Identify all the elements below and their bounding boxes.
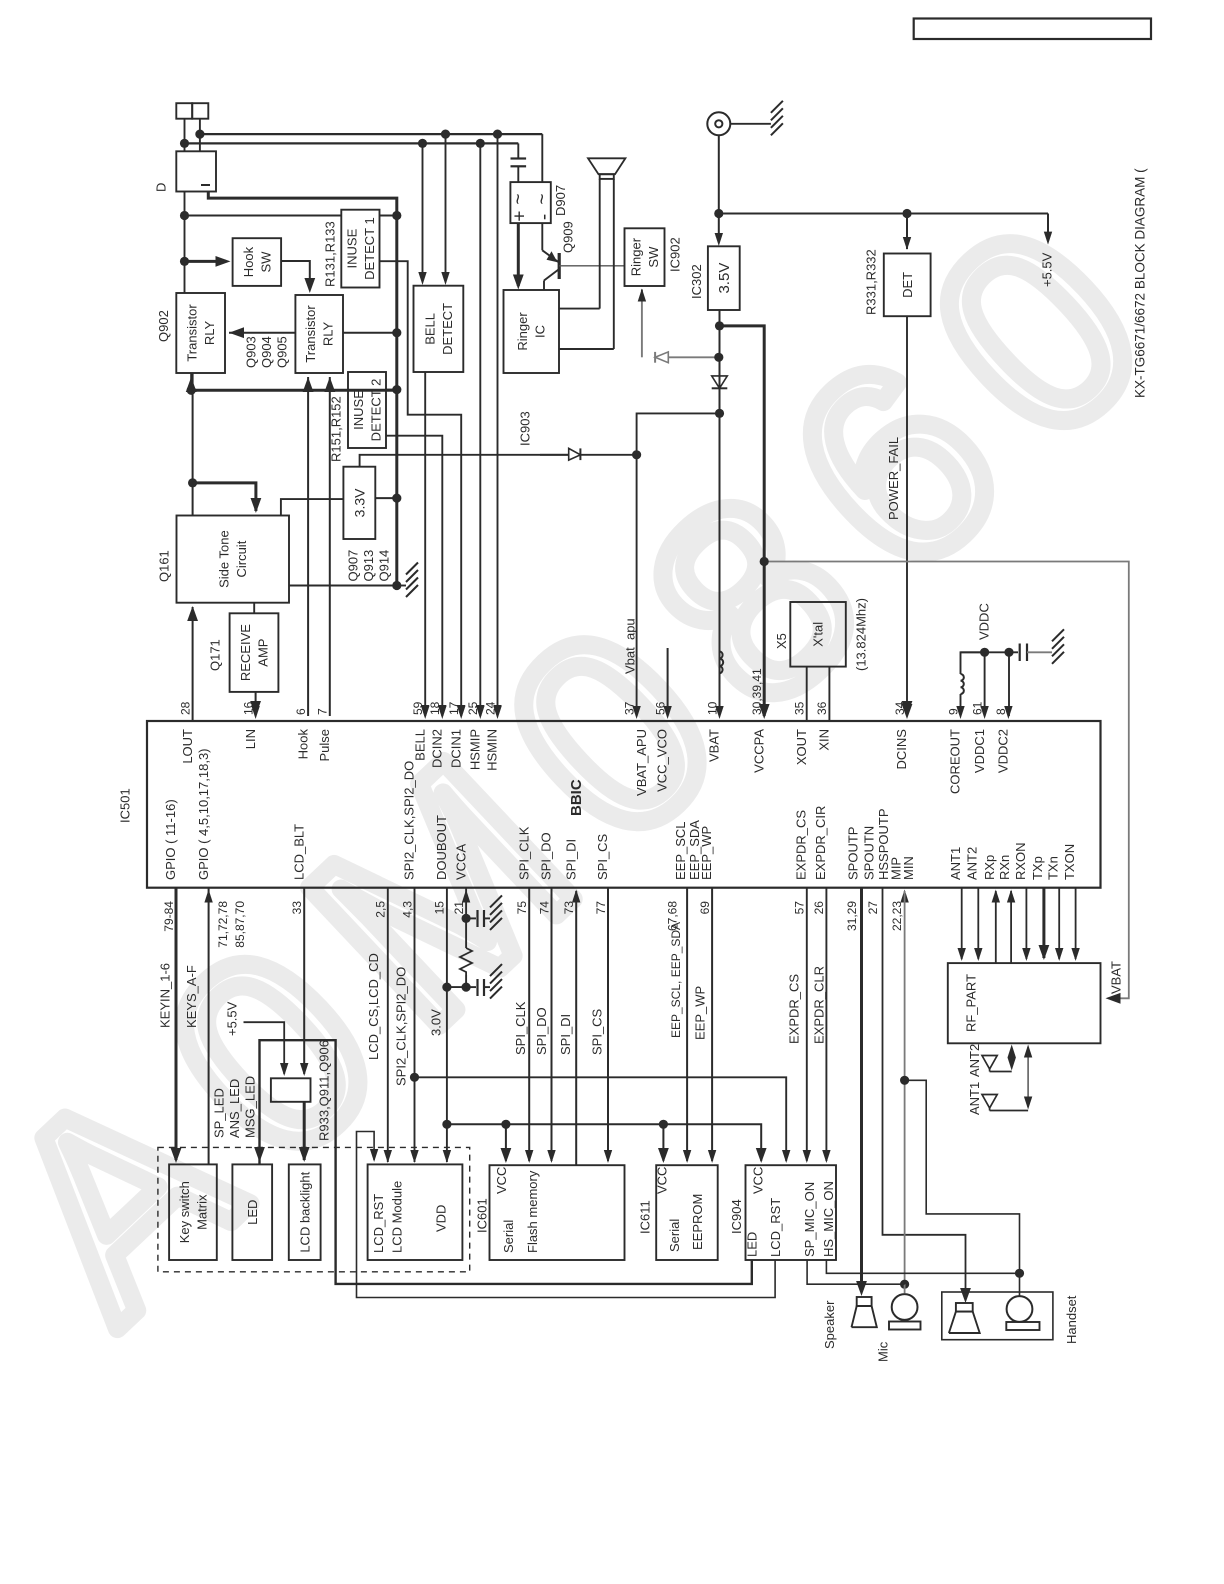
wire ANT1 xyxy=(961,888,963,959)
expander IC904 xyxy=(746,1165,837,1260)
svg-text:IC902: IC902 xyxy=(668,237,683,272)
wire backlight drive xyxy=(303,1102,306,1160)
wire SPOUTN to handset speaker xyxy=(883,888,966,1299)
svg-text:KX-TG6671/6672 BLOCK DIAGRAM (: KX-TG6671/6672 BLOCK DIAGRAM ( xyxy=(1132,168,1147,398)
wire EEP_SCL/SDA xyxy=(686,888,688,1161)
svg-text:4,3: 4,3 xyxy=(400,901,414,918)
svg-text:28: 28 xyxy=(178,701,192,715)
svg-text:EXPDR_CLR: EXPDR_CLR xyxy=(811,966,826,1044)
node hook branch xyxy=(180,257,189,266)
wire BELL input from line xyxy=(422,143,424,281)
svg-text:Serial: Serial xyxy=(501,1220,516,1253)
wire ringer sw enable w/ diode xyxy=(641,298,643,358)
svg-text:69: 69 xyxy=(698,901,712,915)
wire HSMIN from line xyxy=(497,134,499,716)
transistor Q2 (Q909) xyxy=(541,223,543,250)
svg-text:TXn: TXn xyxy=(1046,856,1061,880)
wire SPI_DO xyxy=(551,888,553,1161)
node VCCA cap2 xyxy=(462,983,471,992)
svg-text:EXPDR_CIR: EXPDR_CIR xyxy=(813,806,828,880)
wire INUSE1 to DCIN1 xyxy=(380,261,462,716)
svg-text:VCC: VCC xyxy=(494,1167,509,1194)
node INUSE2/Dline xyxy=(392,385,401,394)
svg-text:EEP_SCL: EEP_SCL xyxy=(673,821,688,880)
svg-text:R331,R332: R331,R332 xyxy=(864,249,879,315)
capacitor on lower bus xyxy=(517,143,519,158)
node mic/handset xyxy=(900,1076,909,1085)
svg-text:SW: SW xyxy=(258,251,273,273)
Hook SW block xyxy=(233,238,282,286)
wire HSMIP from line xyxy=(479,143,481,716)
svg-text:DCIN1: DCIN1 xyxy=(448,729,463,768)
svg-text:MSG_LED: MSG_LED xyxy=(242,1076,257,1138)
wire RLY1 to side tone xyxy=(192,373,194,516)
svg-text:VBAT: VBAT xyxy=(1109,961,1124,994)
title block box (empty) xyxy=(914,19,1151,40)
LED block xyxy=(232,1164,272,1260)
svg-text:VCCA: VCCA xyxy=(453,844,468,880)
node ground of D return xyxy=(392,581,401,590)
wire conn right pin xyxy=(199,119,201,152)
wire EXPDR_CLR xyxy=(825,888,827,1161)
capacitor C (VDDC) xyxy=(1009,651,1018,653)
microphone MIC1 xyxy=(892,1294,918,1320)
wire HS_MIC_ON xyxy=(826,1260,1019,1273)
wire conn left pin xyxy=(184,119,186,152)
wire side tone to 3.3V xyxy=(281,499,344,515)
svg-text:TXp: TXp xyxy=(1030,856,1045,880)
wire VDDC1 xyxy=(984,652,986,716)
wire SPI2 to IC904 xyxy=(415,1077,787,1161)
LCD backlight block xyxy=(289,1164,321,1260)
Key switch Matrix block xyxy=(169,1164,217,1260)
wire VCCA xyxy=(465,888,467,948)
svg-text:22,23: 22,23 xyxy=(890,901,904,931)
svg-text:LED: LED xyxy=(745,1232,760,1257)
wire pulse pin to RLY2 xyxy=(329,377,331,716)
svg-text:SW: SW xyxy=(646,246,661,268)
wire RLY2 to RLY1 xyxy=(229,332,295,334)
svg-text:D: D xyxy=(154,183,169,192)
svg-text:VCC: VCC xyxy=(751,1167,766,1194)
svg-text:73: 73 xyxy=(562,901,576,915)
svg-text:RLY: RLY xyxy=(321,322,336,347)
svg-text:Q161: Q161 xyxy=(156,550,171,582)
wire TXp (thick) xyxy=(1042,888,1045,958)
svg-text:RF_PART: RF_PART xyxy=(964,974,979,1032)
capacitor C (VCCA hi) xyxy=(476,910,478,927)
wire rail to 3.5V reg xyxy=(718,214,720,243)
svg-text:SPOUTN: SPOUTN xyxy=(862,826,877,880)
svg-text:+5.5V: +5.5V xyxy=(1040,252,1055,287)
svg-text:(13.824Mhz): (13.824Mhz) xyxy=(853,598,868,671)
wire D box return (thick) xyxy=(208,192,396,586)
capacitor C (VCCA lo) xyxy=(476,979,478,996)
wire VDDC rail xyxy=(961,651,1010,653)
svg-text:IC903: IC903 xyxy=(518,411,533,446)
svg-text:Vbat_apu: Vbat_apu xyxy=(623,618,638,674)
ground (jack) xyxy=(771,101,783,113)
svg-text:SPI_CLK: SPI_CLK xyxy=(513,1001,528,1055)
wire LCD_BLT xyxy=(303,888,305,1074)
wire SPI_CLK xyxy=(528,888,530,1161)
svg-text:ANT1: ANT1 xyxy=(948,847,963,880)
svg-text:Ringer: Ringer xyxy=(628,237,643,276)
svg-text:COREOUT: COREOUT xyxy=(948,729,963,794)
antenna jack J1 xyxy=(707,112,730,135)
svg-text:33: 33 xyxy=(290,901,304,915)
svg-text:SPI_DI: SPI_DI xyxy=(558,1014,573,1055)
wire TXn xyxy=(1058,888,1060,959)
diode D (ringer sw) xyxy=(654,352,656,363)
wire DCIN2 input from line xyxy=(445,134,447,281)
wire LCD_CS xyxy=(387,888,389,1162)
svg-text:LCD_CS,LCD_CD: LCD_CS,LCD_CD xyxy=(366,953,381,1060)
svg-text:27: 27 xyxy=(866,901,880,915)
svg-text:3.5V: 3.5V xyxy=(716,263,733,294)
LED driver R933,Q911,Q906 xyxy=(271,1078,311,1102)
svg-text:INUSE: INUSE xyxy=(344,228,359,268)
wire RXON xyxy=(1025,888,1027,959)
svg-text:DET: DET xyxy=(900,272,915,298)
node sense/Dline xyxy=(392,211,401,220)
wire hook sw out to RLY2 xyxy=(281,261,310,289)
svg-text:SPI_DO: SPI_DO xyxy=(539,832,554,880)
transistor relay Q902 xyxy=(176,293,225,373)
svg-text:SPI2_CLK,SPI2_DO: SPI2_CLK,SPI2_DO xyxy=(394,967,409,1086)
connector D (line jack) xyxy=(176,103,192,119)
svg-text:Speaker: Speaker xyxy=(822,1300,837,1349)
wire POWER_FAIL to DCINS xyxy=(906,316,908,712)
svg-text:Pulse: Pulse xyxy=(317,729,332,762)
svg-text:Flash memory: Flash memory xyxy=(525,1170,540,1253)
svg-text:SPI2_CLK,SPI2_DO: SPI2_CLK,SPI2_DO xyxy=(402,761,417,880)
svg-text:DETECT 2: DETECT 2 xyxy=(369,379,384,442)
svg-text:VDDC: VDDC xyxy=(976,603,991,640)
svg-text:Q914: Q914 xyxy=(376,550,391,582)
svg-text:Q907: Q907 xyxy=(345,550,360,582)
svg-text:VDDC2: VDDC2 xyxy=(996,729,1011,773)
wire INUSE2 to DCIN2 xyxy=(386,436,442,716)
svg-text:POWER_FAIL: POWER_FAIL xyxy=(886,437,901,520)
wire LCD_RST route from IC904 xyxy=(357,1132,776,1298)
svg-text:RXn: RXn xyxy=(997,855,1012,880)
svg-text:35: 35 xyxy=(793,701,807,715)
wire TXON xyxy=(1075,888,1077,959)
wire RXn xyxy=(1010,891,1012,963)
svg-text:SPI_DO: SPI_DO xyxy=(534,1007,549,1055)
svg-text:VCC_VCO: VCC_VCO xyxy=(655,729,670,792)
svg-text:SPI_CS: SPI_CS xyxy=(595,833,610,880)
wire rail to DET xyxy=(906,214,908,250)
svg-text:SPI_CLK: SPI_CLK xyxy=(516,826,531,880)
wire line sense rail xyxy=(185,215,342,217)
node rail/DET xyxy=(902,209,911,218)
svg-text:IC: IC xyxy=(533,325,548,338)
wire jack down xyxy=(718,135,720,213)
svg-text:DETECT: DETECT xyxy=(440,303,455,355)
svg-text:D907: D907 xyxy=(553,185,568,216)
svg-text:~: ~ xyxy=(508,193,529,204)
wire hook sw feed xyxy=(185,260,227,263)
svg-text:IC904: IC904 xyxy=(729,1199,744,1234)
RECEIVE AMP Q171 xyxy=(230,613,279,692)
svg-text:Matrix: Matrix xyxy=(194,1194,209,1230)
speaker SP1 xyxy=(857,1297,872,1306)
svg-text:Serial: Serial xyxy=(667,1219,682,1252)
svg-text:TXON: TXON xyxy=(1062,844,1077,880)
svg-text:Q904: Q904 xyxy=(259,336,274,368)
Side Tone Circuit Q161 xyxy=(177,516,290,603)
svg-text:KEYIN_1-6: KEYIN_1-6 xyxy=(157,963,172,1028)
wire ANT1 link (double arrow) xyxy=(1027,1047,1029,1107)
svg-text:-: - xyxy=(534,214,555,220)
handset speaker xyxy=(956,1303,973,1312)
wire MIN/mic (gray) xyxy=(904,891,906,1284)
svg-text:DCIN2: DCIN2 xyxy=(430,729,445,768)
svg-text:71,72,78: 71,72,78 xyxy=(216,901,230,948)
svg-text:RXp: RXp xyxy=(982,855,997,880)
BBIC IC501 main block xyxy=(147,721,1101,888)
RF_PART block xyxy=(948,963,1101,1043)
node VCCA cap1 xyxy=(462,914,471,923)
BELL DETECT block xyxy=(414,286,464,372)
svg-text:VCC: VCC xyxy=(655,1167,670,1194)
node SPI2/expander xyxy=(410,1073,419,1082)
svg-text:SPI_DI: SPI_DI xyxy=(563,839,578,880)
wire +5.5V rail xyxy=(719,213,1048,215)
node line/sense xyxy=(180,211,189,220)
svg-text:Transistor: Transistor xyxy=(303,305,318,363)
wire D907 + output to Ringer IC xyxy=(517,223,520,286)
svg-text:VBAT_APU: VBAT_APU xyxy=(634,729,649,796)
wire BELL DETECT out xyxy=(424,372,426,716)
svg-text:77: 77 xyxy=(594,901,608,915)
svg-text:Handset: Handset xyxy=(1064,1295,1079,1344)
wire horn right lead xyxy=(613,179,615,349)
svg-text:RECEIVE: RECEIVE xyxy=(238,624,253,681)
svg-text:Q905: Q905 xyxy=(275,336,290,368)
svg-text:XOUT: XOUT xyxy=(794,729,809,765)
svg-text:Q171: Q171 xyxy=(207,639,222,671)
serial flash IC601 xyxy=(490,1165,625,1260)
svg-text:EEP_WP: EEP_WP xyxy=(693,986,708,1040)
wire VCC_VCO xyxy=(667,648,669,716)
ground (relay return) xyxy=(406,563,418,575)
node VBAT_APU branch xyxy=(715,409,724,418)
wire 3.3V in from Dline xyxy=(375,497,397,499)
svg-text:79-84: 79-84 xyxy=(162,901,176,932)
wire hook pin to RLY2 xyxy=(307,377,309,716)
INUSE DETECT 2 block R151,R152 xyxy=(348,372,386,448)
svg-text:INUSE: INUSE xyxy=(351,390,366,430)
svg-text:SP_LED: SP_LED xyxy=(211,1088,226,1138)
svg-text:RXON: RXON xyxy=(1013,842,1028,880)
svg-text:Side Tone: Side Tone xyxy=(217,530,232,588)
svg-text:7: 7 xyxy=(316,708,330,715)
wire VBAT_APU branch xyxy=(637,413,720,454)
wire D box to RLY1 xyxy=(184,192,186,294)
wire RXp xyxy=(995,891,997,963)
svg-text:VDD: VDD xyxy=(433,1205,448,1232)
svg-text:HSMIN: HSMIN xyxy=(485,729,500,771)
svg-text:26: 26 xyxy=(812,901,826,915)
wire ring bus (lower) xyxy=(185,142,519,144)
svg-text:IC501: IC501 xyxy=(117,788,132,823)
transistor relay Q903,Q904,Q905 xyxy=(295,295,343,373)
svg-text:BELL: BELL xyxy=(412,729,427,761)
svg-text:VDDC1: VDDC1 xyxy=(972,729,987,773)
svg-text:R933,Q911,Q906: R933,Q911,Q906 xyxy=(317,1040,332,1141)
svg-text:LOUT: LOUT xyxy=(180,729,195,764)
svg-text:DCINS: DCINS xyxy=(894,729,909,770)
ringer speaker (horn) xyxy=(588,158,625,174)
ground (VCCA hi) xyxy=(490,895,502,907)
wire to VBAT_APU pin xyxy=(636,455,638,716)
wire SPOUTP to speaker xyxy=(860,888,863,1292)
svg-text:SPOUTP: SPOUTP xyxy=(846,827,861,880)
svg-text:EEP_SCL, EEP_SDA: EEP_SCL, EEP_SDA xyxy=(669,922,683,1038)
INUSE DETECT 1 block R131,R133 xyxy=(341,210,379,288)
wire 3.3V out to diode xyxy=(360,455,569,467)
node RLY/Dline xyxy=(392,328,401,337)
svg-text:Key switch: Key switch xyxy=(177,1181,192,1243)
wire VBAT to RF_PART xyxy=(764,562,1129,999)
wire Q909 collector to Ringer SW xyxy=(559,265,624,267)
wire VBAT supply w/ inductor xyxy=(719,310,721,651)
svg-text:VCCPA: VCCPA xyxy=(751,729,766,773)
wire handset mic feed xyxy=(905,1080,1020,1296)
svg-text:LCD Module: LCD Module xyxy=(390,1181,405,1253)
svg-text:LCD_RST: LCD_RST xyxy=(371,1194,386,1253)
svg-text:SPI_CS: SPI_CS xyxy=(590,1008,605,1055)
node handset mic/hsmic xyxy=(1015,1269,1024,1278)
diode bridge D907 xyxy=(510,182,550,223)
crystal X5 xyxy=(790,602,846,667)
svg-text:LIN: LIN xyxy=(243,729,258,749)
svg-text:AMP: AMP xyxy=(256,639,271,667)
svg-text:X'tal: X'tal xyxy=(811,622,826,647)
svg-text:~: ~ xyxy=(532,193,553,204)
svg-text:Hook: Hook xyxy=(295,729,310,760)
regulator IC302 3.5V xyxy=(708,246,740,310)
svg-text:GPIO ( 11-16): GPIO ( 11-16) xyxy=(163,799,178,880)
svg-text:+: + xyxy=(509,210,530,221)
node VBAT_APU/3.3V diode xyxy=(632,450,641,459)
node 3.5V out / VCCPA branch xyxy=(715,321,724,330)
node ringer-diode branch xyxy=(714,353,723,362)
wire jack to ground xyxy=(730,123,771,125)
svg-text:LCD_BLT: LCD_BLT xyxy=(291,824,306,880)
wire 3.5V out to VBAT pin xyxy=(719,310,721,716)
wire COREOUT w/ inductor xyxy=(961,652,985,674)
node RLY1 drive xyxy=(187,386,196,395)
svg-text:EXPDR_CS: EXPDR_CS xyxy=(787,974,802,1044)
ground (VCCA lo) xyxy=(490,964,502,976)
svg-text:36: 36 xyxy=(815,701,829,715)
wire 3.0V/DOUBOUT xyxy=(446,888,448,1162)
svg-text:Mic: Mic xyxy=(876,1341,891,1362)
wire VCCPA supply xyxy=(720,326,765,716)
wire upper bus to D907 xyxy=(541,134,543,182)
node side tone drive xyxy=(188,478,197,487)
node VCCPA/VBAT-RF xyxy=(760,557,769,566)
svg-text:Q913: Q913 xyxy=(361,550,376,582)
node tip at conn xyxy=(195,130,204,139)
svg-text:2,5: 2,5 xyxy=(374,901,388,918)
svg-text:Transistor: Transistor xyxy=(185,304,200,362)
svg-text:Q909: Q909 xyxy=(560,221,575,253)
svg-text:15: 15 xyxy=(433,901,447,915)
svg-text:XIN: XIN xyxy=(817,729,832,751)
wire XIN xyxy=(828,667,830,721)
line transformer box D xyxy=(176,151,216,191)
svg-text:Circuit: Circuit xyxy=(234,540,249,577)
wire ANT2 xyxy=(977,888,979,959)
svg-text:75: 75 xyxy=(515,901,529,915)
node DOUBOUT/RC xyxy=(442,983,451,992)
svg-text:3.3V: 3.3V xyxy=(351,488,367,517)
svg-text:MIN: MIN xyxy=(901,856,916,880)
svg-text:HS_MIC_ON: HS_MIC_ON xyxy=(821,1181,836,1257)
svg-text:ANT1: ANT1 xyxy=(967,1082,982,1115)
wire RLY drive (thick) xyxy=(191,389,397,392)
wire SPI_DI xyxy=(575,891,577,1165)
svg-text:31,29: 31,29 xyxy=(845,901,859,931)
wire SPI2 bus xyxy=(414,888,416,1162)
wire side tone gnd xyxy=(289,585,397,587)
regulator 3.3V Q907,Q913,Q914 xyxy=(343,467,375,539)
wire receive amp to LIN xyxy=(255,692,257,712)
wire LOUT to side tone xyxy=(192,607,194,721)
svg-text:IC611: IC611 xyxy=(637,1200,652,1234)
svg-text:DOUBOUT: DOUBOUT xyxy=(434,815,449,880)
node mic/spmic xyxy=(900,1280,909,1289)
node VCC IC601 xyxy=(501,1120,510,1129)
svg-text:GPIO ( 4,5,10,17,18,3): GPIO ( 4,5,10,17,18,3) xyxy=(196,748,211,880)
diode D (3.3V to VBAT_APU) xyxy=(579,448,581,460)
svg-text:74: 74 xyxy=(537,901,551,915)
wire 3.0V rail xyxy=(447,1124,761,1161)
svg-text:LCD backlight: LCD backlight xyxy=(297,1171,312,1252)
node 3.0V rail xyxy=(442,1120,451,1129)
LCD Module block xyxy=(368,1164,463,1260)
svg-text:ANT2: ANT2 xyxy=(967,1044,982,1077)
svg-text:Ringer: Ringer xyxy=(515,312,530,351)
wire KEYS_A-F xyxy=(208,888,210,1165)
wire SPI_CS xyxy=(607,888,609,1161)
svg-text:EXPDR_CS: EXPDR_CS xyxy=(794,810,809,880)
wire side tone to receive amp xyxy=(253,603,255,614)
detector R331,R332 DET xyxy=(884,254,931,317)
diode D (3.5V line) xyxy=(712,376,728,388)
wire LED route from IC904 xyxy=(260,1040,752,1284)
svg-text:R131,R133: R131,R133 xyxy=(322,221,337,287)
svg-text:IC302: IC302 xyxy=(689,264,704,299)
wire horn left lead xyxy=(599,179,601,309)
svg-text:LED: LED xyxy=(245,1200,260,1225)
node 3.3V/Dline xyxy=(392,494,401,503)
dashed keypad/LCD enclosure xyxy=(158,1147,470,1271)
svg-text:LCD_RST: LCD_RST xyxy=(768,1198,783,1257)
svg-text:3.0V: 3.0V xyxy=(428,1009,443,1036)
svg-text:BBIC: BBIC xyxy=(568,779,585,816)
svg-text:85,87,70: 85,87,70 xyxy=(233,901,247,948)
svg-text:21: 21 xyxy=(452,901,466,915)
svg-text:Q903: Q903 xyxy=(244,336,259,368)
svg-text:6: 6 xyxy=(294,708,308,715)
svg-text:DETECT 1: DETECT 1 xyxy=(362,217,377,280)
